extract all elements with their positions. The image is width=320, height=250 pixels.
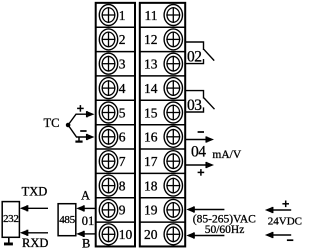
row divider left column 9/10 bbox=[96, 221, 135, 223]
row divider right column 11/12 bbox=[140, 26, 185, 28]
terminal 2 screw bbox=[99, 29, 117, 50]
terminal 1 screw bbox=[99, 5, 117, 26]
plus polarity mark terminal 5 bbox=[77, 107, 84, 109]
svg-text:10: 10 bbox=[119, 227, 133, 242]
terminal 8 screw bbox=[99, 175, 117, 196]
wire terminal 13 to relay 02 bottom contact bbox=[186, 59, 204, 64]
svg-text:24VDC: 24VDC bbox=[268, 216, 302, 228]
terminal block left column box bbox=[96, 3, 135, 247]
row divider right column 19/20 bbox=[140, 221, 185, 223]
wire TC negative lead to terminal 6 bbox=[68, 125, 88, 137]
wire 485 B from terminal 10 bbox=[83, 233, 96, 235]
row divider left column 3/4 bbox=[96, 75, 135, 77]
terminal 7 screw bbox=[99, 151, 117, 172]
terminal 15 screw bbox=[164, 102, 182, 123]
minus polarity mark terminal 6 bbox=[80, 130, 86, 132]
wire terminal 14 to relay 03 top contact bbox=[186, 91, 204, 99]
terminal 16 screw bbox=[164, 126, 182, 147]
plus polarity mark terminal 17 bbox=[198, 171, 205, 173]
row divider right column 18/19 bbox=[140, 197, 185, 199]
terminal 9 screw bbox=[99, 199, 117, 220]
row divider right column 14/15 bbox=[140, 99, 185, 101]
wire AC supply line to terminal 19 bbox=[193, 209, 225, 211]
terminal 19 screw bbox=[164, 199, 182, 220]
row divider left column 1/2 bbox=[96, 26, 135, 28]
svg-text:18: 18 bbox=[144, 178, 158, 193]
row divider right column 16/17 bbox=[140, 148, 185, 150]
svg-text:04: 04 bbox=[191, 144, 206, 161]
svg-text:16: 16 bbox=[144, 130, 158, 145]
relay 03 switch blade bbox=[204, 98, 215, 109]
svg-text:mA/V: mA/V bbox=[212, 149, 241, 161]
svg-text:15: 15 bbox=[144, 105, 158, 120]
relay 02 switch blade bbox=[204, 49, 214, 60]
terminal 11 screw bbox=[164, 5, 182, 26]
row divider right column 12/13 bbox=[140, 51, 185, 53]
svg-text:17: 17 bbox=[144, 154, 158, 169]
minus polarity mark 24VDC bbox=[287, 239, 293, 241]
terminal 4 screw bbox=[99, 78, 117, 99]
minus polarity mark terminal 16 bbox=[198, 131, 204, 133]
svg-text:50/60Hz: 50/60Hz bbox=[205, 224, 245, 236]
wire 24VDC positive bbox=[271, 209, 291, 211]
svg-text:8: 8 bbox=[119, 178, 126, 193]
svg-text:02: 02 bbox=[187, 49, 202, 66]
wire TC positive lead to terminal 5 bbox=[68, 114, 88, 125]
row divider left column 5/6 bbox=[96, 124, 135, 126]
svg-text:6: 6 bbox=[119, 130, 126, 145]
terminal 3 screw bbox=[99, 53, 117, 74]
row divider left column 4/5 bbox=[96, 99, 135, 101]
ground symbol below 232 box bbox=[8, 237, 10, 243]
wire RXD into 232 box bbox=[26, 232, 48, 234]
RS-485 interface box bbox=[58, 204, 76, 236]
svg-text:TXD: TXD bbox=[22, 185, 48, 199]
svg-text:485: 485 bbox=[59, 214, 75, 226]
terminal 6 screw bbox=[99, 126, 117, 147]
wire terminal 12 to relay 02 top contact bbox=[186, 42, 204, 50]
svg-text:RXD: RXD bbox=[22, 236, 48, 250]
svg-text:B: B bbox=[82, 236, 90, 250]
RS-232 interface box bbox=[2, 202, 19, 238]
svg-text:232: 232 bbox=[3, 213, 19, 225]
svg-text:1: 1 bbox=[119, 8, 126, 23]
svg-text:03: 03 bbox=[187, 97, 202, 114]
svg-text:7: 7 bbox=[119, 154, 126, 169]
svg-text:2: 2 bbox=[119, 32, 126, 47]
terminal block right column box bbox=[140, 3, 185, 247]
wire terminal 15 to relay 03 bottom contact bbox=[186, 107, 204, 112]
svg-text:19: 19 bbox=[144, 203, 158, 218]
terminal 13 screw bbox=[164, 53, 182, 74]
svg-text:11: 11 bbox=[145, 8, 158, 23]
TC junction node bbox=[66, 123, 71, 128]
svg-text:20: 20 bbox=[144, 227, 158, 242]
svg-text:3: 3 bbox=[119, 57, 126, 72]
wire 24VDC negative bbox=[271, 234, 291, 236]
terminal 12 screw bbox=[164, 29, 182, 50]
row divider right column 17/18 bbox=[140, 172, 185, 174]
svg-text:TC: TC bbox=[44, 116, 60, 130]
row divider left column 6/7 bbox=[96, 148, 135, 150]
terminal 5 screw bbox=[99, 102, 117, 123]
svg-text:5: 5 bbox=[119, 105, 126, 120]
wire analog output plus from terminal 17 bbox=[186, 164, 208, 166]
terminal 17 screw bbox=[164, 151, 182, 172]
row divider right column 13/14 bbox=[140, 75, 185, 77]
svg-text:4: 4 bbox=[119, 81, 126, 96]
row divider left column 7/8 bbox=[96, 172, 135, 174]
wire analog output minus from terminal 16 bbox=[186, 139, 208, 141]
row divider left column 8/9 bbox=[96, 197, 135, 199]
row divider left column 2/3 bbox=[96, 51, 135, 53]
terminal 10 screw bbox=[99, 224, 117, 245]
wire 485 A from terminal 9 bbox=[83, 207, 96, 209]
wire TXD into 232 box bbox=[26, 207, 48, 209]
svg-text:12: 12 bbox=[144, 32, 158, 47]
terminal 18 screw bbox=[164, 175, 182, 196]
terminal 14 screw bbox=[164, 78, 182, 99]
TC lead tick mark bbox=[78, 137, 80, 141]
svg-text:13: 13 bbox=[144, 57, 158, 72]
row divider right column 15/16 bbox=[140, 124, 185, 126]
terminal 20 screw bbox=[164, 224, 182, 245]
svg-text:9: 9 bbox=[119, 203, 126, 218]
svg-text:01: 01 bbox=[82, 214, 95, 228]
svg-text:14: 14 bbox=[144, 81, 158, 96]
plus polarity mark 24VDC bbox=[282, 203, 289, 205]
wire AC supply neutral to terminal 20 bbox=[193, 235, 225, 237]
svg-text:A: A bbox=[81, 188, 90, 202]
